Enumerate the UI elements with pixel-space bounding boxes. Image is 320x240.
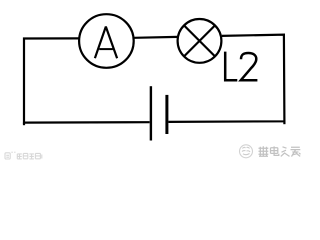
wire: top-left segment and left side down to battery (left loop) [24, 38, 150, 122]
wire: bottom-left corner overshoot tail [23, 123, 25, 126]
wire: top middle segment between ammeter and lamp [134, 36, 177, 39]
ammeter A (circle) [79, 14, 134, 68]
wire: right loop from lamp to battery (top-right, right side, bottom-right) [168, 35, 284, 122]
battery cell: long thin positive plate [150, 86, 152, 140]
label L2 (digit 2) [241, 53, 258, 80]
ammeter letter A [95, 27, 117, 59]
watermark bottom-right (faint circular logo + chinese text) [240, 145, 301, 158]
wire: bottom-right corner overshoot tail [283, 121, 285, 124]
battery cell: short thick negative plate [165, 95, 168, 134]
lamp L2 (circle with cross) [178, 19, 222, 63]
label L2 (letter L) [225, 52, 237, 81]
watermark bottom-left (faint logo + text) [5, 152, 42, 159]
